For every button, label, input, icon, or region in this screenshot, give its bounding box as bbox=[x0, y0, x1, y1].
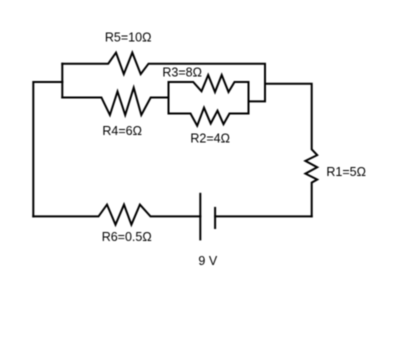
svg-text:R1=5Ω: R1=5Ω bbox=[326, 165, 366, 179]
svg-text:R5=10Ω: R5=10Ω bbox=[105, 31, 152, 45]
svg-text:R4=6Ω: R4=6Ω bbox=[102, 124, 142, 138]
svg-text:R3=8Ω: R3=8Ω bbox=[162, 66, 202, 80]
svg-text:R2=4Ω: R2=4Ω bbox=[190, 132, 230, 146]
svg-text:9 V: 9 V bbox=[198, 254, 217, 268]
svg-text:R6=0.5Ω: R6=0.5Ω bbox=[102, 230, 152, 244]
